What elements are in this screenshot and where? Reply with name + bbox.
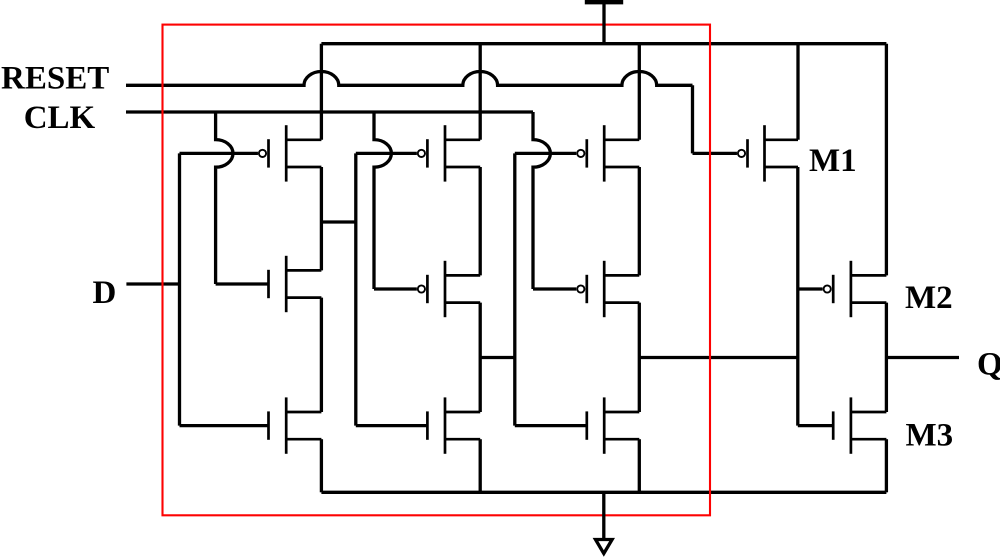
svg-text:M3: M3 xyxy=(906,418,954,454)
svg-text:D: D xyxy=(93,275,117,311)
svg-text:Q: Q xyxy=(977,347,1000,383)
svg-text:M2: M2 xyxy=(905,280,953,316)
svg-text:M1: M1 xyxy=(809,143,857,179)
svg-text:CLK: CLK xyxy=(24,100,96,136)
svg-text:RESET: RESET xyxy=(1,61,109,97)
